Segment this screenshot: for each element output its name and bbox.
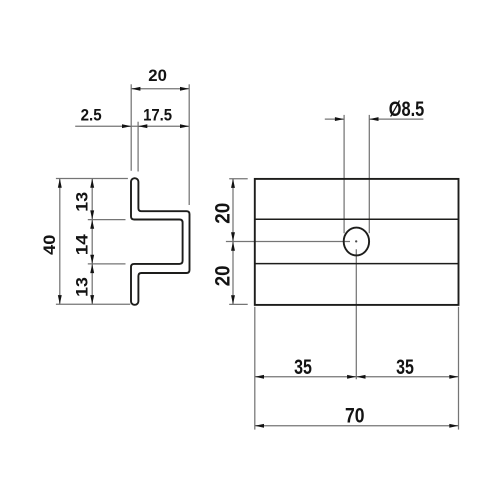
- svg-text:2.5: 2.5: [81, 106, 102, 125]
- extension line upper middle (y=219.6) for 13/14: [88, 219, 126, 221]
- dimension line 20/20 (left of plate): [232, 179, 234, 305]
- centerline vertical (hole): [355, 249, 357, 379]
- svg-text:20: 20: [148, 66, 167, 85]
- arrows dim 20 top: [131, 87, 140, 91]
- arrows dim 70: [255, 424, 264, 428]
- dimension line Ø8.5 right tail: [369, 118, 423, 120]
- extension line top (y=178.5) shared by dims 40 and 13: [56, 178, 128, 180]
- svg-text:20: 20: [210, 203, 234, 224]
- dimension line 35/35: [255, 376, 459, 378]
- extension line right (x=458.5) for 35 and 70: [458, 307, 460, 430]
- svg-text:35: 35: [396, 355, 414, 379]
- extension line top (y=178.7) for 20/20 of plate: [229, 178, 248, 180]
- extension line left (x=254.8) for 35 and 70: [254, 307, 256, 430]
- extension line lower middle (y=263.9) for 14/13: [88, 263, 126, 265]
- dimension line 70: [255, 425, 459, 427]
- svg-text:20: 20: [210, 266, 234, 287]
- svg-text:17.5: 17.5: [143, 106, 172, 125]
- hole Ø8.5: [344, 228, 369, 256]
- extension line right (x=369.3) for dim Ø8.5: [368, 115, 370, 233]
- plate edge line upper (y=219.3): [255, 218, 459, 220]
- dimension line 20 (top of left view): [131, 88, 189, 90]
- svg-text:Ø8.5: Ø8.5: [389, 97, 425, 121]
- dimension line 40 (left vertical): [59, 179, 61, 305]
- profile outline (left view, Z-clip cross-section): [131, 178, 190, 305]
- extension line bottom (y=304.4) for 20/20 of plate: [229, 303, 248, 305]
- arrows dim 2.5 / 17.5: [122, 124, 131, 128]
- extension line middle (x=138.1) for dims 2.5/17.5: [137, 122, 139, 172]
- plate outline (right view, 70x40): [255, 179, 459, 305]
- extension line right (x=189.2) for dims 20 and 17.5: [188, 84, 190, 205]
- extension line left (x=344.1) for dim Ø8.5: [343, 115, 345, 233]
- svg-text:13: 13: [72, 277, 91, 297]
- arrows dim 35/35: [255, 375, 264, 379]
- arrows dim 40: [58, 179, 62, 188]
- extension line bottom (y=304.3) shared by dims 40 and 13: [56, 303, 130, 305]
- plate edge line lower (y=263.6): [255, 263, 459, 265]
- extension line left (x=131.2) for dims 20 and 2.5: [130, 84, 132, 171]
- svg-text:35: 35: [294, 355, 312, 379]
- arrows dim 13/14/13: [90, 179, 94, 188]
- svg-text:40: 40: [40, 235, 59, 255]
- dimension line Ø8.5 left tail: [325, 118, 344, 120]
- svg-text:14: 14: [72, 234, 91, 256]
- dimension line 13/14/13 (inner vertical): [91, 179, 93, 305]
- dimension line 2.5 / 17.5: [75, 125, 189, 127]
- arrows dim 20/20 plate: [231, 179, 235, 188]
- hole center dot: [355, 240, 357, 242]
- arrows dim Ø8.5: [335, 117, 344, 121]
- svg-text:13: 13: [72, 192, 91, 212]
- centerline horizontal (hole): [226, 241, 350, 243]
- svg-text:70: 70: [345, 403, 365, 427]
